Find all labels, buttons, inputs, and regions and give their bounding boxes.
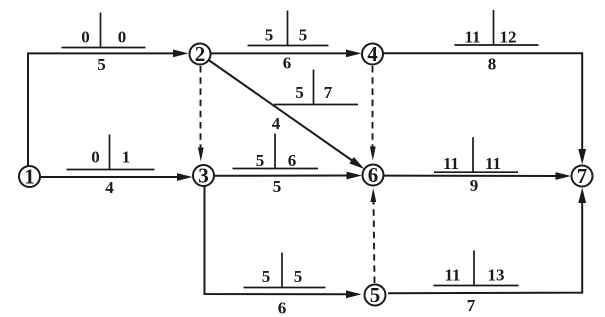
svg-text:0: 0 bbox=[81, 28, 90, 47]
svg-text:5: 5 bbox=[97, 55, 106, 74]
svg-text:0: 0 bbox=[91, 148, 100, 167]
svg-text:3: 3 bbox=[198, 164, 209, 188]
svg-text:4: 4 bbox=[105, 178, 114, 197]
svg-text:5: 5 bbox=[370, 283, 381, 307]
svg-text:8: 8 bbox=[488, 55, 497, 74]
svg-text:5: 5 bbox=[295, 83, 304, 102]
svg-text:6: 6 bbox=[283, 54, 292, 73]
svg-text:11: 11 bbox=[464, 28, 480, 47]
svg-text:7: 7 bbox=[324, 83, 333, 102]
svg-text:13: 13 bbox=[488, 266, 505, 285]
svg-text:4: 4 bbox=[272, 114, 281, 133]
svg-text:12: 12 bbox=[500, 28, 517, 47]
svg-text:0: 0 bbox=[118, 28, 127, 47]
svg-text:5: 5 bbox=[262, 267, 271, 286]
svg-text:1: 1 bbox=[24, 165, 35, 189]
svg-text:5: 5 bbox=[265, 26, 274, 45]
svg-text:5: 5 bbox=[256, 151, 265, 170]
svg-text:6: 6 bbox=[278, 299, 287, 317]
svg-text:7: 7 bbox=[577, 164, 588, 188]
svg-text:6: 6 bbox=[288, 151, 297, 170]
svg-text:5: 5 bbox=[299, 26, 308, 45]
svg-text:5: 5 bbox=[273, 177, 282, 196]
svg-text:4: 4 bbox=[367, 42, 378, 66]
svg-text:5: 5 bbox=[294, 267, 303, 286]
svg-text:7: 7 bbox=[467, 296, 476, 315]
svg-text:11: 11 bbox=[443, 154, 459, 173]
svg-text:2: 2 bbox=[195, 42, 206, 66]
svg-text:9: 9 bbox=[470, 176, 479, 195]
svg-text:11: 11 bbox=[485, 154, 501, 173]
svg-text:6: 6 bbox=[368, 163, 379, 187]
svg-text:11: 11 bbox=[444, 266, 460, 285]
svg-text:1: 1 bbox=[122, 148, 131, 167]
